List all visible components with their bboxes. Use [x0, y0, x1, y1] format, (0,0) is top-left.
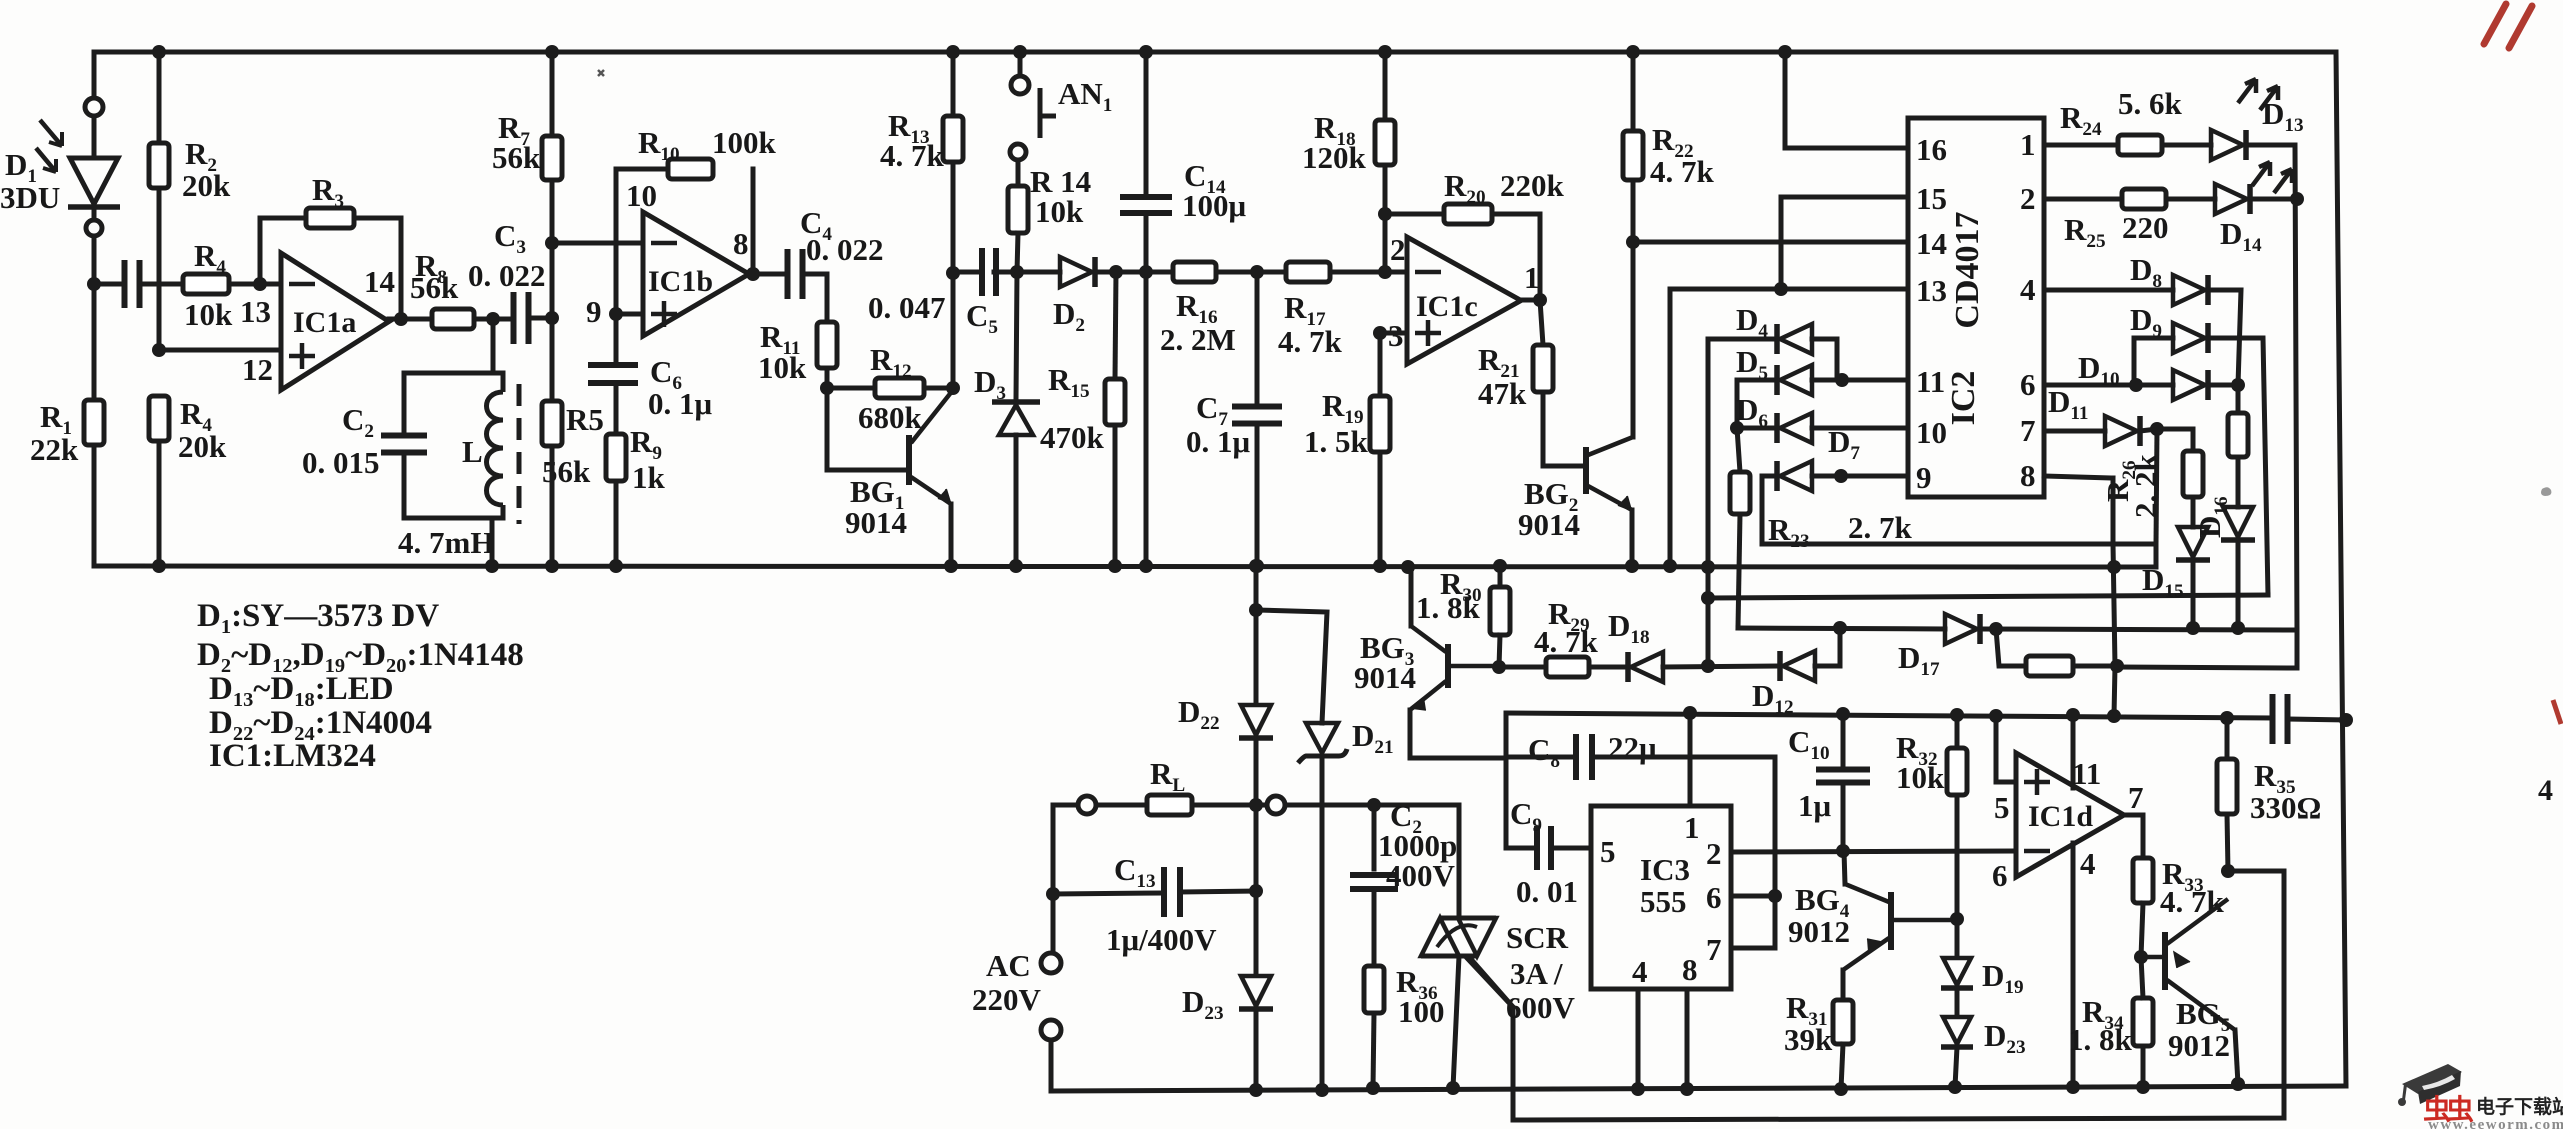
wire node to R34: [2141, 957, 2143, 998]
wire R30 to base node: [1499, 635, 1500, 667]
wire top supply bus: [94, 50, 2336, 55]
resistor R32 10k: [1947, 748, 1967, 795]
svg-text:220: 220: [2122, 210, 2169, 245]
wire BG3 collector to bus: [1409, 567, 1414, 626]
node pin9: [609, 307, 623, 321]
svg-text:2: 2: [2020, 181, 2036, 216]
wire D16 to D17row: [2236, 540, 2241, 628]
wire D3 top lead: [1016, 272, 1017, 399]
op-amp IC1b: [643, 212, 749, 336]
node D4 line y598: [1701, 591, 1715, 605]
svg-text:220k: 220k: [1500, 168, 1565, 203]
wire C8 left leg: [1504, 713, 1509, 848]
svg-text:4: 4: [1632, 954, 1648, 989]
wire D9 to vertical: [2208, 338, 2268, 595]
svg-text:5: 5: [1600, 834, 1616, 869]
wire D5 left bend: [1735, 380, 1740, 428]
wire BG4 emitter up: [1844, 851, 1845, 884]
wire pin14 line: [1633, 240, 1908, 245]
diode D8 1N4148: [2173, 275, 2205, 305]
resistor RL load: [1147, 795, 1192, 815]
svg-text:16: 16: [1916, 132, 1947, 167]
wire C14 bottom lead: [1144, 213, 1149, 272]
node R11 R12 base: [820, 381, 834, 395]
wire gate return: [1467, 871, 2284, 1120]
junction R19 bottom bus: [1373, 559, 1387, 573]
junction pin8 ground: [1680, 1082, 1694, 1096]
wire D9 row: [2134, 336, 2173, 341]
svg-text:22k: 22k: [30, 432, 79, 467]
junction left rail input tap: [87, 277, 101, 291]
wire pin15 lead: [1781, 197, 1908, 289]
wire R23 top lead: [1737, 428, 1740, 472]
node pin13 of IC1a: [253, 277, 267, 291]
terminal RL left: [1078, 796, 1096, 814]
resistor R5 56k: [542, 401, 562, 446]
wire C10 bottom lead: [1841, 782, 1846, 851]
wire D4 row left: [1708, 337, 1777, 342]
svg-text:8: 8: [733, 226, 749, 261]
op-amp IC1c: [1407, 237, 1521, 364]
svg-text:1: 1: [2020, 127, 2036, 162]
resistor R28 unlabeled: [2026, 656, 2073, 676]
junction R31 ground: [1834, 1082, 1848, 1096]
wire R12 right lead: [924, 386, 953, 391]
svg-text:120k: 120k: [1302, 140, 1367, 175]
resistor R12 680k: [875, 378, 924, 398]
wire R19 to bottom bus: [1378, 452, 1383, 566]
diode D17 1N4148: [1945, 614, 1977, 644]
wire C7 top lead: [1255, 272, 1260, 404]
svg-text:11: 11: [1916, 364, 1945, 399]
resistor R3: [306, 208, 354, 228]
wire R33 to base node: [2141, 903, 2143, 957]
wire D17 row right: [1980, 629, 2297, 630]
red pen marks top right: [2484, 4, 2532, 48]
svg-text:1. 5k: 1. 5k: [1304, 424, 1369, 459]
wire pin6 lead: [2044, 383, 2173, 388]
svg-text:8: 8: [1682, 952, 1698, 987]
junction D22 bus: [1249, 559, 1263, 573]
wire R3 feedback right: [354, 218, 401, 319]
wire D6 anode to pin10: [1812, 426, 1908, 431]
diode D21 zener: [1306, 723, 1338, 753]
resistor R21 47k: [1533, 345, 1553, 392]
svg-text:2. 7k: 2. 7k: [1848, 510, 1913, 545]
wire pin5 lead: [1996, 716, 2016, 782]
svg-text:7: 7: [2128, 780, 2144, 815]
terminal AN1 lower: [1010, 144, 1026, 160]
resistor R31 39k: [1833, 1000, 1853, 1044]
wire tank down lead: [490, 518, 495, 566]
thyristor SCR triac: [1440, 916, 1496, 921]
svg-text:1μ: 1μ: [1798, 788, 1832, 823]
svg-text:400V: 400V: [1386, 858, 1456, 893]
svg-text:2. 2k: 2. 2k: [2128, 454, 2163, 519]
svg-text:10k: 10k: [1035, 194, 1084, 229]
svg-text:100μ: 100μ: [1182, 188, 1247, 223]
svg-text:100: 100: [1398, 994, 1445, 1029]
svg-text:IC1d: IC1d: [2028, 800, 2093, 833]
wire RL right lead: [1192, 803, 1267, 808]
wire C9 to 555 pin5: [1552, 846, 1591, 851]
wire R22 top lead: [1631, 52, 1636, 131]
wire R3 feedback left: [260, 218, 306, 284]
diode D19 1N4148: [1943, 958, 1971, 985]
wire R15 to bottom bus: [1113, 425, 1118, 566]
capacitor C6 0.1u: [588, 365, 638, 383]
svg-text:AC: AC: [986, 948, 1031, 983]
node pin8 y716: [2107, 709, 2121, 723]
wire R7 to IC1b minus node: [550, 180, 555, 243]
wire BG1 emitter to bus: [949, 504, 954, 566]
capacitor C11 unlabeled: [2273, 694, 2288, 744]
terminal AC lower: [1041, 1020, 1061, 1040]
wire y715 to frame: [2288, 719, 2346, 720]
wire R30 top lead: [1498, 566, 1503, 587]
junction y715 frame: [2339, 713, 2353, 727]
wire R20 left lead: [1385, 212, 1444, 217]
node D11 cathode: [2150, 422, 2164, 436]
wire AC lower to ground: [1049, 1040, 1054, 1091]
svg-text:SCR: SCR: [1506, 920, 1569, 955]
node C13 left: [1046, 887, 1060, 901]
node D6 R23: [1730, 421, 1744, 435]
diode D10 1N4148: [2173, 370, 2205, 400]
wire R12 left lead: [827, 386, 875, 391]
junction BG2 emitter bus: [1625, 559, 1639, 573]
node D13 D14 cathodes: [2290, 192, 2304, 206]
resistor R15 470k: [1105, 379, 1125, 425]
wire D22 to RL line: [1254, 738, 1259, 805]
wire input cap to R4: [141, 282, 183, 287]
node pin15 pin13: [1774, 282, 1788, 296]
wire R13 top lead: [951, 52, 956, 116]
wire pin8 555 ground: [1685, 989, 1690, 1089]
wire R25 to D14: [2166, 197, 2215, 202]
junction top bus C14: [1139, 45, 1153, 59]
wire R1 to bottom bus: [92, 445, 97, 566]
capacitor C2 0.015 tank: [381, 436, 427, 453]
wire SCR top lead: [1457, 805, 1462, 918]
wire D19 to D23: [1955, 988, 1960, 1015]
diode D9 1N4148: [2173, 323, 2205, 353]
wire R36 to ground: [1373, 1013, 1374, 1088]
diode D18 1N4148: [1625, 652, 1631, 682]
wire R35 down: [2227, 814, 2228, 871]
svg-text:5: 5: [1994, 790, 2010, 825]
wire C10 top lead: [1841, 714, 1846, 770]
wire AC lead: [1051, 894, 1056, 953]
node pin11 D4 D5: [1835, 373, 1849, 387]
LED D13: [2211, 130, 2243, 160]
wire R21 top lead: [1540, 300, 1543, 345]
wire D11 cathode node: [2140, 429, 2157, 431]
wire C13 right: [1181, 891, 1256, 892]
svg-text:10k: 10k: [184, 297, 233, 332]
wire D23 to ground: [1254, 1010, 1259, 1090]
capacitor C10 1u: [1816, 770, 1870, 783]
svg-text:4. 7k: 4. 7k: [1278, 324, 1343, 359]
junction D23b ground: [1948, 1080, 1962, 1094]
wire D11 node down: [2156, 429, 2157, 544]
wire D2 to R16: [1095, 270, 1173, 275]
svg-text:2: 2: [1390, 232, 1406, 267]
wire R24 to D13: [2162, 143, 2211, 148]
wire D22 chain mid: [1254, 805, 1259, 974]
wire IC1d output: [2124, 815, 2143, 858]
wire D14 to right: [2250, 197, 2297, 202]
terminal AN1 upper: [1011, 76, 1029, 94]
svg-text:39k: 39k: [1784, 1022, 1833, 1057]
diode D7 1N4148: [1774, 461, 1780, 491]
LED D14 rays: [2252, 162, 2292, 193]
svg-text:15: 15: [1916, 181, 1947, 216]
node IC1b minus input: [545, 236, 559, 250]
svg-text:12: 12: [242, 352, 273, 387]
junction R36 ground: [1366, 1081, 1380, 1095]
wire R22 to BG2 collector: [1631, 180, 1636, 437]
transistor BG2 9014: [1583, 447, 1589, 494]
wire pin13 line: [1670, 287, 1908, 292]
wire y598 line: [1708, 595, 2268, 598]
wire R20 feedback right: [1492, 214, 1540, 300]
wire pin11 lead: [2071, 715, 2076, 788]
wire D16 chain top: [2236, 385, 2241, 413]
svg-text:0. 022: 0. 022: [468, 258, 546, 293]
wire R26 to D15: [2191, 497, 2196, 527]
node IC1b output: [746, 267, 760, 281]
svg-text:9014: 9014: [1354, 660, 1416, 695]
svg-text:IC2: IC2: [1945, 371, 1982, 426]
wire R4 to IC1a pin13: [229, 282, 281, 287]
wire pin2 555 row: [1731, 851, 2016, 852]
node D22 RL: [1249, 798, 1263, 812]
svg-text:14: 14: [1916, 226, 1947, 261]
capacitor C14 100u: [1120, 197, 1172, 213]
svg-text:56k: 56k: [492, 140, 541, 175]
wire upper section bottom bus: [94, 566, 2156, 567]
svg-text:R5: R5: [566, 402, 604, 437]
wire AN1 top lead: [1018, 52, 1023, 76]
svg-text:2: 2: [1706, 836, 1722, 871]
wire R2 top lead: [157, 52, 162, 143]
resistor R33 4.7k: [2133, 858, 2153, 903]
node D2 cathode R15: [1109, 265, 1123, 279]
junction pin4 ic1d ground: [2066, 1080, 2080, 1094]
svg-text:0. 015: 0. 015: [302, 445, 380, 480]
node R20 left: [1378, 207, 1392, 221]
svg-text:1. 8k: 1. 8k: [2068, 1022, 2133, 1057]
resistor R27 unlabeled: [2228, 413, 2248, 457]
junction top bus R22: [1626, 45, 1640, 59]
node C3 bias rail: [545, 311, 559, 325]
node D15 bottom: [2186, 621, 2200, 635]
wire IC1b minus input: [552, 241, 643, 246]
resistor R4 10k: [183, 274, 229, 294]
svg-text:9: 9: [1916, 460, 1932, 495]
junction top bus to R7: [545, 45, 559, 59]
wire D7 row left: [1762, 474, 1777, 479]
svg-text:0. 1μ: 0. 1μ: [1186, 424, 1251, 459]
wire D3 to bottom bus: [1014, 435, 1019, 566]
wire R21 to BG2 base: [1543, 392, 1583, 466]
junction top bus pin16: [1778, 45, 1792, 59]
wire C14 to bottom bus: [1144, 272, 1149, 566]
junction R15 bottom bus: [1108, 559, 1122, 573]
node y715 C10: [1836, 707, 1850, 721]
wire R5 to bottom bus: [550, 446, 555, 566]
svg-text:6: 6: [2020, 367, 2036, 402]
wire IC1c output: [1521, 298, 1540, 303]
push button AN1: [1040, 88, 1056, 138]
capacitor C9 0.01: [1537, 826, 1551, 870]
inductor L 4.7mH: [487, 373, 504, 518]
junction top bus to R2: [152, 45, 166, 59]
watermark graduation cap icon: [2398, 1064, 2462, 1106]
svg-text:100k: 100k: [712, 125, 777, 160]
resistor R20 220k: [1444, 204, 1492, 224]
wire C5 to D2 node: [994, 270, 1060, 275]
svg-text:D1​:SY—3573 DV: D1​:SY—3573 DV: [197, 598, 439, 638]
resistor R34 1.8k: [2133, 998, 2153, 1046]
svg-text:1: 1: [1684, 810, 1700, 845]
wire C3 to bias rail: [529, 316, 552, 321]
junction SCR ground: [1446, 1081, 1460, 1095]
svg-text:0. 1μ: 0. 1μ: [648, 386, 713, 421]
wire R17 to IC1c pin2: [1330, 270, 1407, 275]
wire C5 node down to R12: [951, 273, 956, 388]
wire BG3 emitter down: [1410, 710, 1506, 758]
node pin14 R22: [1626, 235, 1640, 249]
svg-text:8: 8: [2020, 458, 2036, 493]
wire C14 top lead: [1144, 52, 1149, 194]
wire R10 left vertical: [614, 169, 619, 314]
wire D5 anode to pin11: [1812, 378, 1908, 383]
wire left rail lower: [92, 236, 97, 400]
junction BG3 collector bus: [1401, 560, 1415, 574]
svg-text:470k: 470k: [1040, 420, 1105, 455]
resistor R19 1.5k: [1370, 396, 1390, 452]
node RL C2: [1367, 798, 1381, 812]
wire R14 to signal: [1017, 233, 1018, 272]
junction top bus R18: [1378, 45, 1392, 59]
transistor BG4 9012: [1888, 892, 1894, 950]
wire R35 top lead: [2225, 718, 2230, 759]
wire rail to R5: [550, 318, 555, 401]
svg-text:IC1:LM324: IC1:LM324: [209, 738, 376, 774]
node C13 D22 chain: [1249, 884, 1263, 898]
svg-text:IC1c: IC1c: [1416, 290, 1478, 323]
svg-text:IC3: IC3: [1640, 852, 1690, 887]
terminal RL right: [1267, 796, 1285, 814]
wire D17 row left: [1738, 628, 1945, 629]
svg-text:IC1a: IC1a: [293, 306, 356, 339]
junction tank bottom bus: [485, 559, 499, 573]
wire R19 top lead: [1378, 333, 1383, 396]
wire pin1 555 lead: [1688, 713, 1693, 806]
svg-text:13: 13: [1916, 273, 1947, 308]
wire pin4 lead ic1d: [2071, 843, 2076, 1087]
capacitor C3 0.022: [514, 292, 529, 344]
svg-text:2. 2M: 2. 2M: [1160, 322, 1236, 357]
wire D4 cathode down: [1706, 339, 1711, 666]
diode D4 1N4148: [1774, 324, 1780, 354]
node R8 C3 tank: [486, 312, 500, 326]
svg-text:22μ: 22μ: [1608, 730, 1657, 765]
junction R34 ground: [2136, 1080, 2150, 1094]
wire R10 top left: [616, 167, 668, 172]
diode D16 LED: [2223, 507, 2253, 537]
diode D5 1N4148: [1774, 365, 1780, 395]
wire D7 anode to pin9: [1812, 474, 1908, 479]
wire outer frame right edge: [2336, 52, 2346, 1086]
wire pin12 input: [159, 348, 281, 353]
wire tank top: [404, 371, 503, 376]
resistor R29 4.7k: [1546, 657, 1589, 677]
transistor BG1 9014: [906, 435, 912, 485]
svg-text:555: 555: [1640, 884, 1687, 919]
wire D18 to D12: [1663, 666, 1780, 667]
junction D23 ground: [1249, 1083, 1263, 1097]
svg-text:9012: 9012: [1788, 914, 1850, 949]
svg-text:5. 6k: 5. 6k: [2118, 86, 2183, 121]
wire BG2 emitter to bus: [1630, 510, 1635, 566]
wire D1 to lower terminal: [92, 207, 97, 220]
wire pin2 lead: [2044, 197, 2122, 202]
wire R18 to R20 node: [1383, 165, 1388, 214]
wire D17 node to R28: [1996, 629, 2026, 666]
node R35 BG5 collector: [2221, 864, 2235, 878]
junction pin4 ground: [1631, 1082, 1645, 1096]
wire R8 to C3: [474, 317, 513, 322]
op-amp IC1d: [2016, 753, 2124, 877]
node y715 pin5v: [1989, 709, 2003, 723]
node IC1c output: [1533, 293, 1547, 307]
resistor R36 100: [1364, 966, 1384, 1013]
svg-text:56k: 56k: [410, 270, 459, 305]
wire bias rail mid: [550, 243, 555, 318]
svg-text:56k: 56k: [542, 454, 591, 489]
node D4 line bus: [1701, 560, 1715, 574]
wire pin6 555 lead: [1731, 894, 1775, 899]
wire R32 down: [1955, 795, 1960, 919]
svg-text:10k: 10k: [1896, 760, 1945, 795]
wire pin8 vertical: [2113, 478, 2115, 716]
wire LED return to row: [2295, 630, 2300, 668]
wire D5 row: [1737, 378, 1777, 383]
wire C2 top lead: [1372, 805, 1377, 869]
op-amp IC1a: [281, 253, 389, 390]
wire R9 to bottom bus: [614, 481, 619, 566]
wire R16 to R17: [1216, 270, 1286, 275]
node pin8 bus: [2107, 560, 2121, 574]
wire BG1 base path: [827, 388, 906, 470]
svg-text:CD4017: CD4017: [1949, 211, 1986, 328]
svg-text:7: 7: [1706, 932, 1722, 967]
svg-text:11: 11: [2072, 756, 2101, 791]
wire pin7 lead: [2044, 429, 2105, 434]
svg-text:20k: 20k: [182, 168, 231, 203]
svg-text:10: 10: [626, 178, 657, 213]
wire R27 to D16: [2236, 457, 2241, 507]
svg-text:0. 047: 0. 047: [868, 290, 946, 325]
svg-text:4: 4: [2080, 846, 2096, 881]
resistor R22 4.7k: [1623, 131, 1643, 180]
wire R11 to node: [825, 368, 830, 388]
wire R4b to bottom bus: [157, 441, 162, 566]
capacitor C8 22u: [1576, 734, 1592, 780]
